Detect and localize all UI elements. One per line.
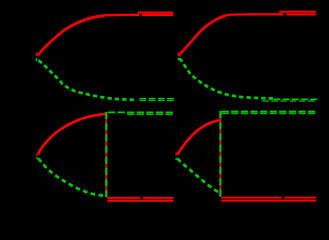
panel TR group: [178, 12, 317, 101]
green plateau dashes row1 TL: [140, 98, 174, 100]
red stable branch TR (solid): [179, 14, 316, 55]
red apex tick TL: [36, 53, 38, 56]
red stable branch TL (solid): [38, 15, 173, 55]
green apex tick BL: [36, 157, 38, 159]
gap nick in lower-state line A BL: [140, 197, 143, 200]
green top dashed row1 BR: [222, 111, 317, 113]
gap nick in red branch TL: [139, 14, 142, 17]
green plateau dashes row2 TR (lower): [262, 100, 317, 102]
red apex tick TR: [178, 53, 180, 56]
green unstable branch TL (dashed): [39, 60, 135, 100]
green apex tick TL: [36, 58, 38, 61]
green plateau dashes row2 TL: [140, 99, 174, 101]
red apex tick BR: [175, 153, 177, 155]
green unstable branch TR (dashed): [179, 58, 274, 98]
green dashed vertical line BL: [105, 112, 107, 197]
red upper asymptote line TR: [279, 11, 316, 13]
panel TL group: [36, 13, 174, 101]
red stable branch BL: [38, 114, 106, 155]
red branch rise echo TR: [179, 16, 226, 56]
red vertical jump line BR: [219, 113, 221, 197]
red lower-state line B BR (lower, solid): [221, 200, 316, 202]
red vertical jump line BL: [105, 114, 107, 198]
red branch rise echo TL: [38, 16, 104, 55]
red lower-state line B BL (lower, solid): [107, 200, 173, 202]
green apex tick BR: [175, 158, 177, 160]
gap nick in red branch TR: [284, 13, 287, 16]
red lower-state line A BR (upper): [221, 197, 316, 199]
green unstable branch BR (dashed): [178, 159, 220, 193]
green top dashed row2 BL: [127, 113, 174, 115]
green top dashed row1 BL: [108, 111, 174, 113]
red stable branch BR: [177, 120, 220, 154]
green unstable branch BL (dashed): [38, 158, 106, 196]
green apex tick TR: [178, 58, 180, 61]
panel BL group: [36, 112, 174, 201]
green plateau dashes row1 TR (upper): [274, 98, 317, 100]
red upper asymptote line TL: [138, 12, 174, 14]
red apex tick BL: [36, 154, 38, 156]
gap nick in lower-state line A BR: [282, 196, 285, 199]
red lower-state line A BL (upper): [107, 197, 173, 199]
green dashed vertical line BR: [219, 111, 221, 197]
panel BR group: [175, 111, 316, 201]
green top dashed row2 BR: [222, 112, 317, 114]
